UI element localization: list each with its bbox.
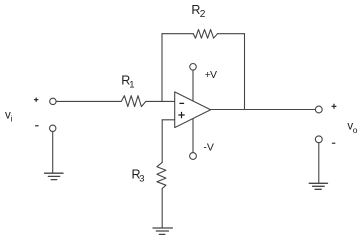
wire: output from op-amp to + terminal	[211, 109, 316, 111]
output + terminal circle	[315, 106, 322, 113]
ground symbol (bottom, R3)	[153, 228, 172, 234]
wire: R1 to op-amp inverting input	[146, 100, 175, 102]
wire: +V supply to op-amp	[192, 70, 194, 101]
wire: feedback top, left segment	[162, 33, 193, 35]
op-amp inverting pin mark	[180, 102, 184, 104]
terminal circle -V	[190, 153, 197, 160]
svg-text:3: 3	[139, 174, 144, 185]
wire: R3 branch vertical lower	[161, 189, 163, 228]
op-amp U1	[175, 92, 211, 128]
svg-text:-V: -V	[203, 141, 214, 153]
svg-text:i: i	[11, 114, 13, 124]
wire: -V supply from op-amp	[192, 119, 194, 153]
svg-text:o: o	[353, 125, 358, 135]
output - sign	[332, 142, 335, 144]
wire: feedback left vertical (node at R1/op-amp junction)	[161, 34, 163, 102]
input + sign	[34, 98, 38, 102]
terminal circle +V	[190, 64, 197, 71]
ground symbol (left, input)	[45, 173, 64, 179]
resistor R3	[157, 162, 166, 188]
input - sign	[36, 125, 39, 127]
svg-text:1: 1	[129, 79, 134, 90]
output - terminal circle	[315, 136, 322, 143]
wire: feedback right vertical down to output	[244, 34, 246, 110]
wire: R3 branch vertical upper	[161, 120, 163, 163]
wire: non-inverting input stub	[162, 119, 175, 121]
wire: input from + terminal to R1	[56, 100, 121, 102]
input + terminal circle	[50, 98, 56, 104]
input - terminal circle	[50, 125, 56, 131]
output + sign	[332, 104, 336, 108]
svg-text:+V: +V	[205, 69, 217, 81]
op-amp non-inverting pin mark	[179, 112, 184, 117]
resistor R2	[193, 30, 217, 39]
svg-text:2: 2	[200, 9, 206, 20]
resistor R1	[121, 96, 146, 107]
wire: feedback top, right segment	[218, 33, 245, 35]
wire: input - terminal to ground	[52, 132, 54, 173]
ground symbol (right, output)	[309, 183, 327, 189]
wire: output - terminal to ground	[318, 143, 320, 183]
